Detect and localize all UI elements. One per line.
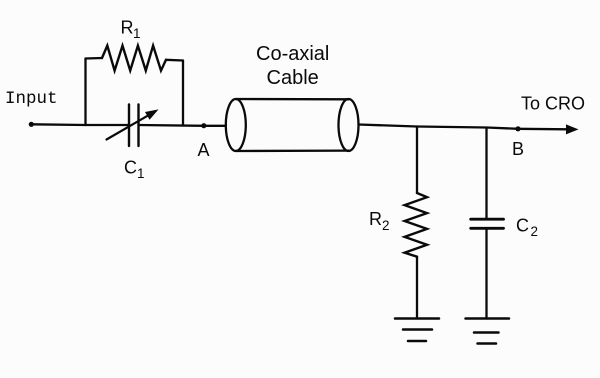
wire top-left to R1 (86, 57, 103, 60)
svg-text:To CRO: To CRO (521, 94, 585, 114)
wire R2 top lead (416, 127, 418, 194)
svg-text:B: B (512, 139, 524, 159)
arrow To CRO (518, 94, 585, 135)
wire left branch vertical (84, 59, 86, 126)
svg-text:1: 1 (137, 166, 145, 181)
wire R2 bottom lead (416, 257, 418, 319)
svg-text:2: 2 (382, 218, 390, 233)
wire C2 bottom lead (485, 228, 487, 318)
svg-text:R: R (121, 18, 134, 38)
ground under R2 (395, 319, 439, 342)
wire C1 left plate connection (86, 124, 130, 126)
coaxial cable (226, 43, 359, 151)
wire C1 right plate to node A (139, 124, 205, 127)
svg-text:Input: Input (5, 89, 58, 109)
resistor R1 (102, 18, 166, 71)
svg-text:A: A (198, 140, 210, 160)
node Input (5, 89, 58, 127)
capacitor C1 (variable) (107, 105, 159, 182)
wire node A to coax cable (204, 125, 226, 127)
svg-text:2: 2 (531, 224, 539, 239)
capacitor C2 (471, 216, 538, 240)
wire right branch vertical (182, 61, 184, 126)
resistor R2 (369, 193, 427, 257)
wire coax to node B with junctions (359, 125, 519, 129)
svg-text:R: R (369, 209, 382, 229)
wire C2 top lead (485, 128, 487, 220)
svg-text:1: 1 (133, 26, 141, 41)
wire input to R1C1 block (31, 123, 85, 126)
svg-text:Cable: Cable (267, 67, 319, 89)
svg-text:C: C (516, 216, 529, 236)
wire R1 to right branch (166, 59, 183, 62)
node A (198, 123, 210, 160)
node B (512, 126, 524, 159)
svg-text:Co-axial: Co-axial (256, 43, 329, 65)
svg-text:C: C (124, 158, 137, 178)
ground under C2 (466, 319, 510, 344)
